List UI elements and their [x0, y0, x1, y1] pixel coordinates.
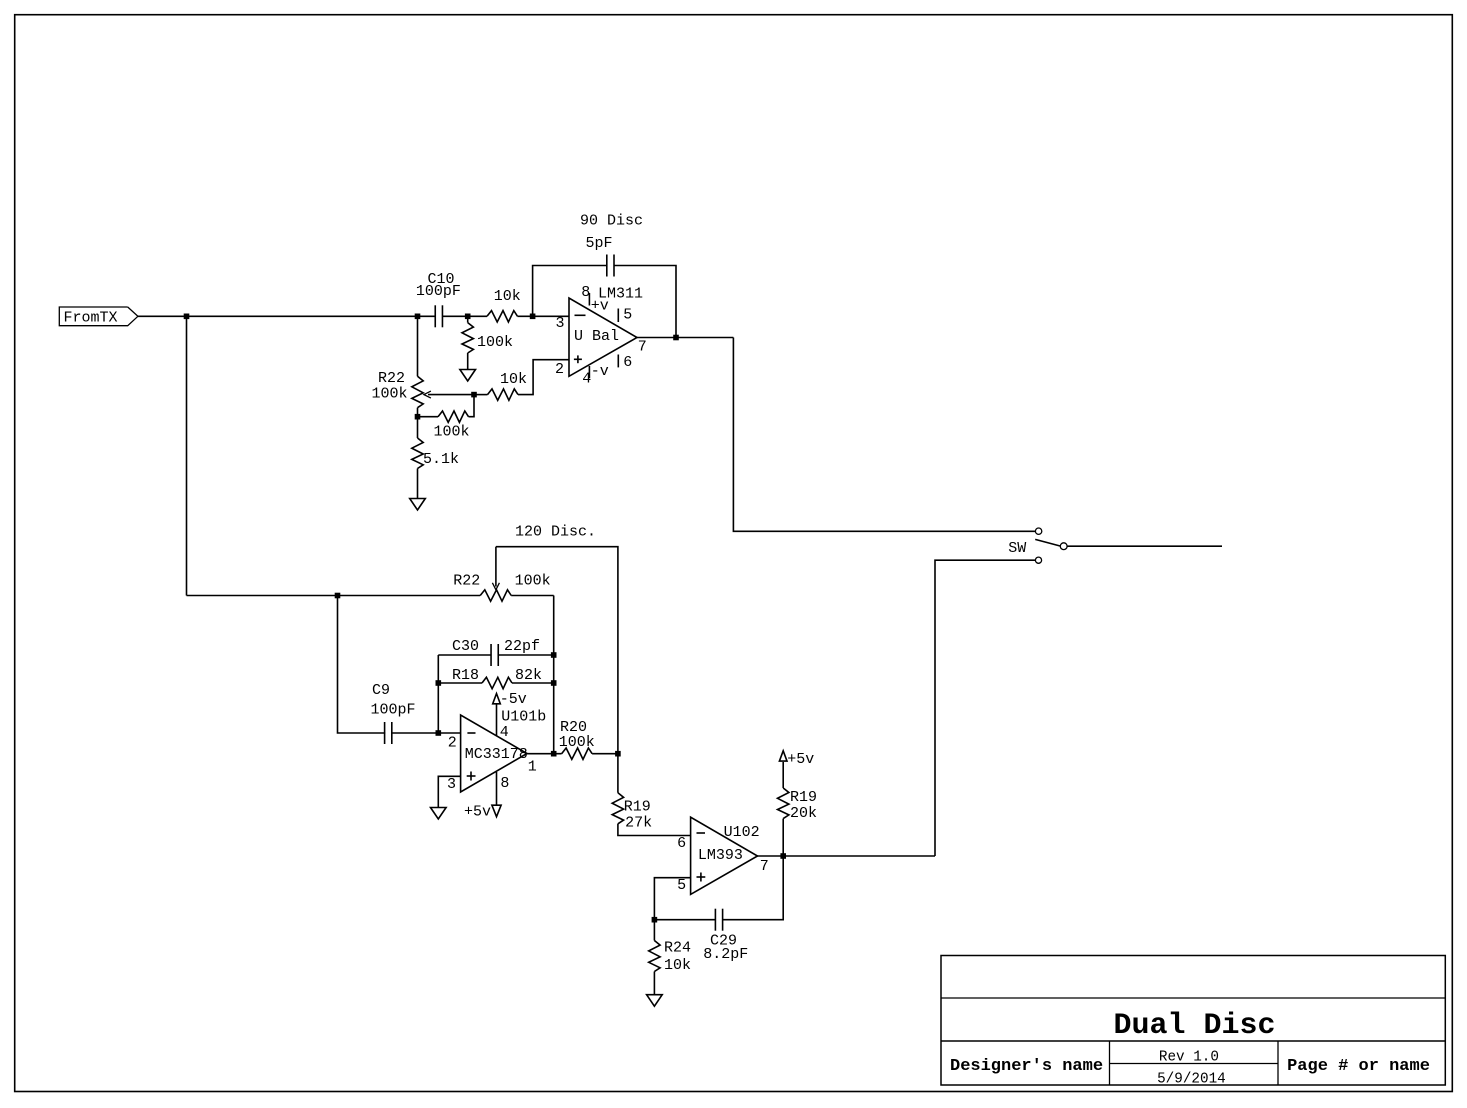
power +5v arrow	[779, 751, 787, 761]
svg-text:5.1k: 5.1k	[423, 451, 459, 468]
svg-text:Designer's name: Designer's name	[950, 1057, 1103, 1076]
op-amp U101b MC33178	[461, 715, 527, 792]
wire C10 to R 10k	[443, 315, 488, 317]
wire FromTX to C10	[138, 315, 435, 317]
svg-text:27k: 27k	[625, 814, 652, 831]
wire C30 left rail	[437, 655, 439, 733]
svg-text:1: 1	[528, 759, 537, 776]
pin 8 stub	[496, 772, 498, 805]
capacitor C10	[434, 305, 436, 327]
resistor R19 20k	[782, 819, 784, 856]
svg-text:Dual Disc: Dual Disc	[1113, 1009, 1275, 1043]
svg-text:LM393: LM393	[698, 847, 743, 864]
svg-text:R19: R19	[790, 789, 817, 806]
op-amp U102 LM393 comparator	[691, 817, 758, 894]
wire pin 5 down	[654, 878, 690, 920]
svg-text:120 Disc.: 120 Disc.	[515, 524, 596, 541]
wire switch output	[1067, 545, 1222, 547]
resistor 5.1k	[412, 438, 423, 469]
wire 120 Disc feedback	[496, 547, 618, 754]
svg-text:+5v: +5v	[464, 804, 491, 821]
svg-text:C30: C30	[452, 638, 479, 655]
plus symbol pin 3	[467, 775, 476, 777]
R22 wiper arrow	[428, 394, 474, 396]
op-amp U Bal LM311 comparator	[569, 298, 637, 376]
svg-text:3: 3	[447, 776, 456, 793]
node junction LM393 output	[780, 853, 786, 859]
wire feedback network right rail	[553, 596, 555, 754]
resistor 100k to ground	[467, 316, 469, 322]
wire LM311 output to switch	[637, 337, 733, 339]
svg-text:FromTX: FromTX	[64, 310, 118, 327]
node junction pin 2	[436, 730, 442, 736]
node junction left of C10	[415, 314, 421, 320]
wire vertical to lower section	[186, 316, 188, 595]
svg-text:10k: 10k	[500, 371, 527, 388]
svg-text:6: 6	[623, 354, 632, 371]
plus symbol pin 2	[574, 358, 582, 360]
svg-text:-5v: -5v	[500, 691, 527, 708]
capacitor C30 22pf	[438, 654, 491, 656]
node junction C30 right	[551, 652, 557, 658]
svg-text:90 Disc: 90 Disc	[580, 213, 643, 230]
svg-text:100pF: 100pF	[370, 702, 415, 719]
pin 6 tick	[617, 355, 619, 368]
svg-text:82k: 82k	[515, 667, 542, 684]
wire feedback to output	[614, 266, 676, 338]
svg-text:22pf: 22pf	[504, 638, 540, 655]
svg-text:2: 2	[555, 361, 564, 378]
svg-text:+5v: +5v	[787, 751, 814, 768]
ground under R24	[647, 995, 663, 1007]
node junction R18 left	[436, 680, 442, 686]
pin 4 stub	[496, 704, 498, 736]
svg-text:U101b: U101b	[501, 709, 546, 726]
svg-text:-v: -v	[591, 363, 609, 380]
resistor R20 100k	[527, 753, 562, 755]
wire 10k to LM311 pin 3	[518, 315, 570, 317]
node junction pin5/R24/C29	[652, 917, 658, 923]
resistor 100k (wiper to bottom)	[418, 416, 439, 418]
potentiometer R22 100k	[417, 316, 419, 376]
svg-text:Page # or name: Page # or name	[1287, 1057, 1430, 1076]
net port FromTX	[59, 307, 138, 326]
wire feedback up from pin3 node	[533, 266, 607, 317]
switch SW	[1035, 528, 1067, 563]
ground under 100k	[460, 370, 476, 382]
svg-text:6: 6	[677, 835, 686, 852]
node junction pot bottom	[415, 414, 421, 420]
capacitor 5pF 90 Disc	[606, 255, 608, 277]
pin 8 tick	[588, 293, 590, 306]
wire pin 3 to ground	[438, 776, 460, 807]
svg-text:R19: R19	[624, 799, 651, 816]
power -5v arrow	[493, 694, 501, 704]
pin 4 tick	[588, 366, 590, 378]
resistor 10k (to pin 3)	[487, 311, 518, 322]
node junction to C9	[335, 593, 341, 599]
svg-text:100k: 100k	[433, 424, 469, 441]
svg-text:8: 8	[581, 284, 590, 301]
minus symbol pin 6	[697, 832, 706, 834]
svg-text:R24: R24	[664, 939, 691, 956]
svg-text:5: 5	[623, 306, 632, 323]
svg-text:4: 4	[500, 724, 509, 741]
node junction R20 right	[615, 751, 621, 757]
node junction right of C10	[465, 314, 471, 320]
pin 5 tick	[617, 309, 619, 323]
svg-text:R22: R22	[453, 573, 480, 590]
svg-text:8: 8	[500, 775, 509, 792]
svg-text:R22: R22	[378, 370, 405, 387]
svg-text:8.2pF: 8.2pF	[703, 946, 748, 963]
svg-text:20k: 20k	[790, 805, 817, 822]
svg-text:U Bal: U Bal	[574, 328, 619, 345]
minus symbol pin 3	[575, 314, 586, 316]
power +5v arrow (down)	[492, 805, 501, 817]
node junction at input split	[184, 314, 190, 320]
resistor R18 82k	[438, 682, 482, 684]
svg-text:5pF: 5pF	[586, 235, 613, 252]
capacitor C9 100pF	[384, 722, 386, 744]
svg-text:10k: 10k	[494, 288, 521, 305]
node junction output/feedback	[673, 335, 679, 341]
svg-text:+v: +v	[591, 297, 609, 314]
svg-text:100pF: 100pF	[416, 283, 461, 300]
plus symbol pin 5	[697, 876, 706, 878]
node junction wiper	[471, 392, 477, 398]
wire lower branch horizontal	[187, 595, 481, 597]
svg-text:100k: 100k	[515, 573, 551, 590]
ground under pin 3	[431, 808, 447, 820]
svg-text:7: 7	[638, 339, 647, 356]
svg-text:5: 5	[677, 877, 686, 894]
svg-text:R18: R18	[452, 667, 479, 684]
svg-text:MC33178: MC33178	[465, 746, 528, 763]
capacitor C29 8.2pF	[654, 919, 715, 921]
svg-text:5/9/2014: 5/9/2014	[1157, 1071, 1226, 1087]
svg-text:3: 3	[555, 315, 564, 332]
node junction feedback tap	[530, 314, 536, 320]
potentiometer R22 100k (120 Disc)	[480, 590, 511, 601]
svg-text:100k: 100k	[371, 386, 407, 403]
svg-text:100k: 100k	[559, 734, 595, 751]
title block	[941, 956, 1445, 1086]
svg-text:10k: 10k	[664, 957, 691, 974]
svg-text:2: 2	[448, 734, 457, 751]
node junction R18 right	[551, 680, 557, 686]
svg-text:7: 7	[760, 858, 769, 875]
R22 wiper arrow (from top)	[495, 547, 497, 587]
wire 10k to LM311 pin 2	[518, 360, 569, 395]
svg-text:100k: 100k	[477, 334, 513, 351]
wire C9 to MC33178 pin 2	[392, 732, 461, 734]
svg-text:C9: C9	[372, 682, 390, 699]
wire down to C9	[338, 596, 386, 734]
resistor R19 27k	[617, 754, 619, 793]
wire LM393 output to switch	[758, 855, 936, 857]
node junction MC33178 output	[551, 751, 557, 757]
resistor R24 10k	[653, 920, 655, 941]
svg-text:SW: SW	[1008, 540, 1026, 557]
minus symbol pin 2	[467, 732, 475, 734]
resistor 10k (to pin 2)	[474, 394, 488, 396]
svg-text:Rev 1.0: Rev 1.0	[1159, 1050, 1219, 1066]
ground under 5.1k	[410, 499, 426, 511]
svg-text:U102: U102	[724, 824, 760, 841]
